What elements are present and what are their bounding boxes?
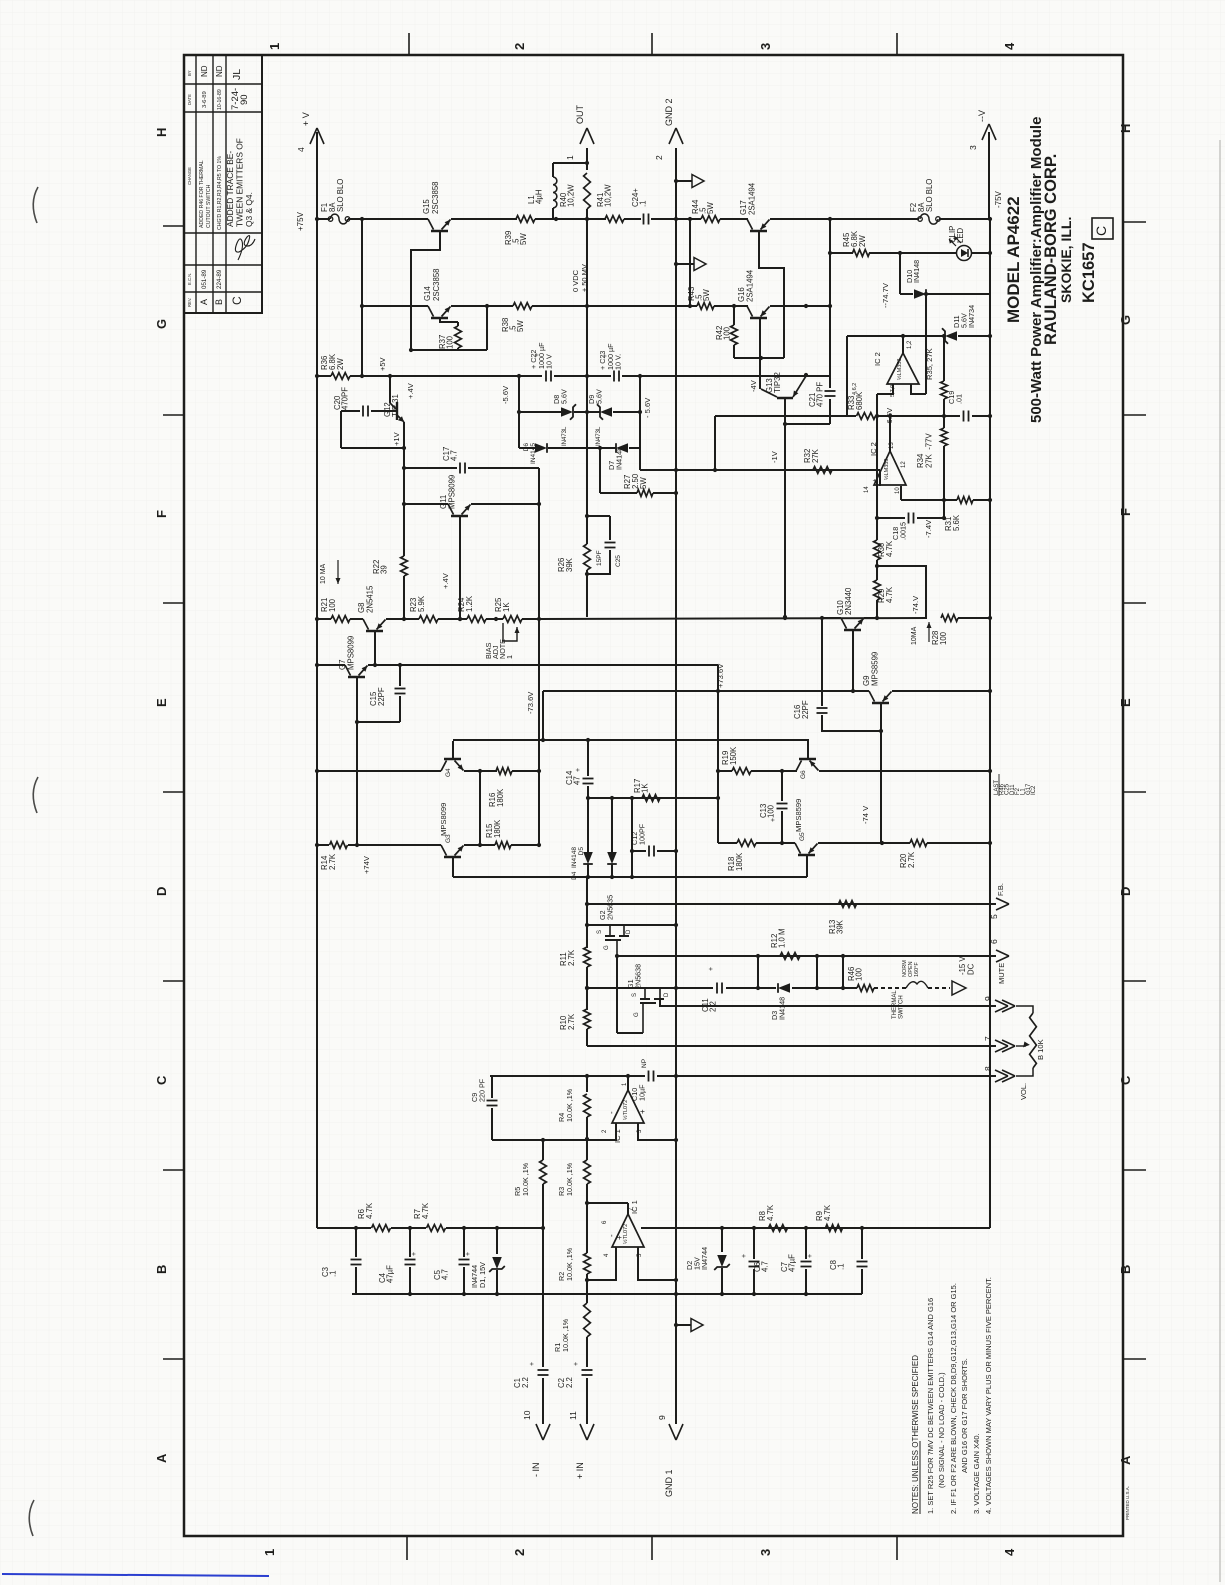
junction Q10 base row691	[851, 689, 855, 693]
wire R27 column	[599, 448, 601, 493]
zone tick top 2	[651, 33, 653, 55]
label R17 value	[633, 779, 650, 793]
wire row 424	[785, 423, 830, 425]
wire C6 lower	[753, 1269, 755, 1294]
label R4 value	[557, 1088, 574, 1122]
wire IC1b inv input	[587, 1247, 616, 1280]
label C7 value	[780, 1254, 797, 1272]
connector pin11 +IN	[568, 1411, 594, 1440]
transistor G13 TIP32	[761, 376, 806, 398]
wire Q15 base lead	[411, 232, 440, 350]
label C13 value	[759, 804, 776, 818]
svg-text:D6: D6	[523, 443, 530, 452]
label R8 value	[758, 1204, 775, 1221]
wire col877 mid	[876, 560, 878, 580]
svg-text:+ IN: + IN	[575, 1462, 585, 1479]
junction row1294 C5	[462, 1292, 466, 1296]
capacitor C2	[582, 1370, 593, 1375]
wire row448 right	[629, 447, 640, 449]
zone tick left 7	[163, 1358, 184, 1360]
svg-text:IN4148: IN4148	[777, 997, 786, 1020]
capacitor C25	[605, 543, 616, 548]
resistor R41	[605, 216, 624, 223]
junction row1294 D2	[720, 1292, 724, 1296]
LAST underline	[998, 774, 1000, 796]
transistor G10 2N3440	[841, 618, 864, 630]
junction Q9 base C16 row	[879, 729, 883, 733]
label R39 value	[504, 231, 528, 245]
wire col543 to C1	[542, 1228, 544, 1367]
svg-text:D: D	[664, 992, 670, 997]
junction col587 row988b	[585, 986, 589, 990]
transistor G9 MPS8599	[869, 691, 892, 703]
wire row1203	[587, 1202, 628, 1204]
junction rail617 x822	[820, 616, 824, 620]
wire Q14 emitter foot	[486, 306, 488, 350]
capacitor C13	[777, 804, 788, 809]
label MPS8099 shared Q3 Q4	[439, 803, 448, 836]
wire col926 clamp	[925, 294, 927, 394]
wire C9 column	[491, 1076, 493, 1098]
svg-text:100: 100	[446, 335, 455, 349]
wire dashed to thermal switch	[874, 987, 906, 989]
transistor G12 TIP31	[390, 402, 404, 422]
svg-text:15PF: 15PF	[596, 550, 603, 566]
svg-text:5W: 5W	[702, 289, 711, 301]
svg-text:10,2W: 10,2W	[604, 184, 613, 207]
svg-text:4.7K: 4.7K	[365, 1202, 374, 1219]
resistor R30	[874, 540, 881, 560]
label D6 value	[523, 443, 537, 464]
label G1 part	[626, 964, 642, 989]
capacitor C21	[825, 391, 836, 396]
wire C5 lower	[463, 1267, 465, 1294]
wire row771 left section	[317, 770, 441, 772]
wire rail619 from bus	[317, 618, 331, 620]
wire R3 lead	[586, 1139, 588, 1160]
wire C7 column	[805, 1228, 807, 1259]
wire C13 top lead	[781, 771, 783, 801]
label -15V DC	[958, 956, 975, 975]
svg-text:VOL.: VOL.	[1019, 1083, 1028, 1100]
svg-text:+: +	[770, 818, 777, 822]
svg-text:4.7: 4.7	[450, 450, 459, 461]
svg-text:5.9K: 5.9K	[417, 595, 426, 612]
junction rail306 C21 top	[804, 304, 808, 308]
wire C25 row top	[587, 515, 610, 517]
-15V DC driver triangle	[952, 981, 966, 995]
svg-text:S: S	[597, 930, 603, 934]
junction row448 R27col	[598, 446, 602, 450]
svg-text:-: -	[607, 1111, 616, 1114]
wire stub to flag1	[676, 180, 692, 182]
wire C20 left column	[340, 411, 342, 448]
svg-text:90: 90	[239, 94, 250, 105]
svg-text:MPS8099: MPS8099	[346, 636, 355, 670]
resistor R27	[637, 490, 653, 497]
wire C19 to bus	[972, 415, 990, 417]
connector pin6 MUTE	[989, 939, 1009, 962]
wire C20 row	[341, 410, 360, 412]
svg-text:+.4V: +.4V	[406, 382, 415, 399]
wire Q5 emitter right	[818, 842, 910, 844]
junction row956 x843	[841, 954, 845, 958]
svg-text:2: 2	[512, 1549, 527, 1556]
svg-text:10.0K ,1%: 10.0K ,1%	[565, 1247, 574, 1281]
svg-text:22PF: 22PF	[377, 687, 386, 706]
junction flag1	[674, 179, 678, 183]
label R6 value	[357, 1202, 374, 1219]
blue pen line bottom-left margin	[2, 1574, 269, 1576]
wire +75V rail to fuse F1	[317, 218, 330, 220]
junction flag2	[674, 262, 678, 266]
label R33 value	[847, 391, 864, 410]
wire C18 right	[917, 517, 944, 519]
wire row336	[847, 335, 944, 337]
wire R44/R43 left link	[689, 219, 691, 306]
svg-text:10 V: 10 V	[545, 354, 554, 369]
zone tick right 5	[1123, 980, 1146, 982]
svg-text:D: D	[1118, 887, 1133, 896]
wire IC2b out col	[889, 416, 891, 451]
junction D10 plus-input	[924, 292, 928, 296]
junction row1228 D2	[720, 1226, 724, 1230]
transistor G3 MPS8099	[441, 845, 464, 857]
wire right -75V bus vertical	[989, 219, 991, 1228]
wire Q1 drain to row1006	[660, 999, 996, 1006]
wire C24 to R44	[651, 218, 701, 220]
svg-text:3. VOLTAGE GAIN X40.: 3. VOLTAGE GAIN X40.	[972, 1433, 981, 1514]
label C14 value	[565, 770, 582, 785]
label R1 value	[553, 1318, 570, 1352]
label R34 value	[916, 433, 933, 468]
svg-text:10.0K ,1%: 10.0K ,1%	[565, 1088, 574, 1122]
svg-text:14: 14	[864, 486, 870, 493]
svg-text:REV.: REV.	[187, 298, 192, 307]
svg-text:C: C	[1118, 1075, 1133, 1085]
wire row468 left	[404, 467, 457, 469]
svg-text:4: 4	[1002, 42, 1017, 50]
svg-text:TWEEN EMITTERS OF: TWEEN EMITTERS OF	[235, 138, 245, 227]
capacitor C1	[538, 1370, 549, 1375]
wire IC2b noninv input	[879, 470, 881, 486]
label THERMAL SWITCH	[892, 990, 905, 1019]
wire col847	[846, 336, 848, 416]
svg-text:150K: 150K	[729, 746, 738, 765]
svg-text:.0015: .0015	[898, 522, 907, 540]
svg-text:A: A	[199, 299, 209, 305]
wire F1 node down to rail306	[361, 219, 363, 376]
svg-text:IN4148: IN4148	[614, 447, 623, 470]
svg-text:4.7K: 4.7K	[823, 1204, 832, 1221]
wire D3 to R46 tap	[792, 987, 843, 989]
wire row1046 to pin7	[587, 1045, 996, 1047]
fuse F1	[331, 214, 348, 224]
svg-text:F: F	[1118, 508, 1133, 516]
zone tick bottom 1	[406, 1536, 408, 1560]
junction GND2 row1139	[674, 1138, 678, 1142]
junction col944 row518	[942, 516, 946, 520]
wire corner row1046	[586, 1045, 588, 1047]
junction row877 C12col	[630, 875, 634, 879]
svg-text:--74.7V: --74.7V	[881, 282, 890, 308]
wire R16 right	[512, 770, 539, 772]
wire C1 to -IN	[542, 1378, 544, 1424]
zone tick right 7	[1123, 1358, 1146, 1360]
wire C13 bottom lead	[781, 811, 783, 843]
junction col543 row1228	[541, 1226, 545, 1230]
wire C25 lower	[587, 550, 610, 574]
op-amp IC1 upper half	[612, 1090, 644, 1123]
capacitor C4	[405, 1260, 416, 1265]
junction Q13 col rail617	[783, 615, 787, 619]
notes heading underline	[919, 1441, 921, 1514]
junction col944 row500	[942, 498, 946, 502]
wire R37 row left	[411, 349, 458, 351]
wire Q10 base column	[852, 630, 854, 691]
wire Q11 emitter right	[471, 503, 539, 505]
svg-text:+: +	[741, 1254, 748, 1258]
wire row988	[587, 987, 713, 989]
label CLIP LED	[948, 226, 965, 243]
svg-text:39: 39	[380, 565, 389, 574]
wire row1228 feedback	[641, 1227, 990, 1229]
svg-text:5,7,9: 5,7,9	[890, 385, 896, 397]
wire GND2 flag lower stub	[676, 1324, 691, 1326]
label G9 part	[862, 652, 879, 686]
svg-text:DATE: DATE	[187, 94, 192, 105]
label R18 value	[727, 852, 744, 871]
wire IC1a output	[627, 1076, 629, 1090]
junction row468 left	[402, 466, 406, 470]
wire D2 lower	[721, 1268, 723, 1294]
svg-text:4.7K: 4.7K	[421, 1202, 430, 1219]
wire bias row 358	[734, 357, 784, 359]
label R11 value	[559, 949, 576, 966]
label L1 4uH	[527, 190, 544, 204]
wire row518 C18	[877, 517, 905, 519]
resistor R23	[419, 616, 438, 623]
label R3 value	[557, 1162, 574, 1196]
label R16 value	[488, 788, 505, 807]
diode D5	[607, 852, 617, 864]
svg-text:G14: G14	[423, 286, 432, 301]
wire R37 top lead	[457, 322, 459, 326]
wire R39 to R41	[535, 218, 606, 220]
wire stub to flag2	[676, 263, 694, 265]
resistor R19	[732, 768, 751, 775]
svg-text:4µH: 4µH	[535, 190, 544, 204]
svg-text:+: +	[708, 967, 715, 971]
wire +1V row	[341, 447, 404, 449]
label R32 value	[803, 448, 820, 463]
wire C8 lower	[861, 1269, 863, 1294]
svg-text:BY: BY	[187, 70, 192, 76]
resistor R37	[455, 326, 462, 348]
svg-text:9: 9	[983, 996, 993, 1001]
wire col587 R11-R10	[586, 967, 588, 1010]
zone tick right 4	[1123, 791, 1146, 793]
svg-text:-74 V: -74 V	[861, 805, 870, 824]
capacitor C17	[460, 463, 465, 474]
junction row988 x817	[815, 986, 819, 990]
junction row798 C12	[630, 796, 634, 800]
svg-text:5W: 5W	[519, 233, 528, 245]
connector pin1 OUT	[565, 128, 594, 160]
junction GND2 R27	[674, 491, 678, 495]
LED CLIP indicator	[949, 236, 972, 261]
binder hole mark middle	[33, 777, 38, 813]
label R9 value	[815, 1204, 832, 1221]
junction col519 row412	[517, 410, 521, 414]
svg-text:+.4V: +.4V	[441, 572, 450, 589]
capacitor C11	[717, 983, 722, 994]
wire OUT column below R26	[586, 570, 588, 617]
label R22 value	[372, 560, 389, 574]
wire col539 long	[538, 468, 540, 845]
junction col357 row722	[355, 720, 359, 724]
svg-text:+74V: +74V	[362, 855, 371, 874]
svg-text:C25: C25	[615, 555, 622, 567]
capacitor C14	[583, 779, 594, 784]
junction row1228 C6	[752, 1226, 756, 1230]
svg-text:4.7K: 4.7K	[885, 540, 894, 557]
svg-text:IN4734: IN4734	[967, 305, 976, 328]
svg-text:-7.4V: -7.4V	[924, 519, 933, 538]
svg-text:10.0K ,1%: 10.0K ,1%	[565, 1162, 574, 1196]
capacitor C16	[817, 708, 828, 713]
svg-text:39K: 39K	[836, 919, 845, 934]
wire C15 bottom row	[357, 721, 400, 723]
svg-text:-73.6V: -73.6V	[526, 691, 535, 714]
wire row904 FB	[587, 903, 996, 905]
junction col587 row1280	[585, 1278, 589, 1282]
wire col877 to rail	[876, 600, 878, 618]
svg-text:7: 7	[983, 1036, 993, 1041]
svg-text:10.0K ,1%: 10.0K ,1%	[521, 1162, 530, 1196]
junction row798 D4	[586, 796, 590, 800]
svg-text:5W: 5W	[706, 202, 715, 214]
svg-text:2W: 2W	[858, 235, 867, 247]
svg-text:22PF: 22PF	[801, 700, 810, 719]
zone tick right 3	[1123, 602, 1146, 604]
junction GND2 row925	[674, 923, 678, 927]
connector pin3 -V	[968, 124, 996, 150]
wire R38 to PNP side	[532, 305, 697, 307]
svg-text:ND: ND	[200, 65, 209, 77]
svg-text:10 V.: 10 V.	[614, 354, 623, 370]
svg-text:½TL072: ½TL072	[622, 1100, 629, 1120]
label C15 value	[369, 687, 386, 706]
connector pin7 VOL wiper	[983, 1036, 1015, 1052]
svg-text:D1, 15V: D1, 15V	[478, 1262, 487, 1288]
label D9 value	[587, 389, 603, 404]
junction row845 col357	[355, 843, 359, 847]
label C23 value	[598, 343, 623, 370]
junction col480 row845	[478, 843, 482, 847]
svg-text:10MA: 10MA	[911, 626, 918, 645]
label 10MA with arrow	[320, 560, 341, 584]
svg-text:-: -	[607, 1234, 616, 1237]
svg-text:G: G	[1118, 315, 1133, 325]
wire bus corner into row1228	[989, 1076, 991, 1228]
fuse F2	[920, 214, 938, 224]
zener D9 5.6V	[600, 407, 612, 417]
label C16 value	[793, 700, 810, 719]
wire OUT column R26 leads	[586, 516, 588, 544]
wire C14 to row798	[587, 786, 589, 798]
wire x830 column lower	[829, 399, 831, 424]
svg-text:1.0 M: 1.0 M	[778, 929, 787, 949]
junction row504 right	[537, 502, 541, 506]
resistor R36	[331, 373, 350, 380]
junction row843 Q9 base col	[880, 841, 884, 845]
diode D10	[914, 289, 926, 299]
label R38 value	[501, 318, 525, 332]
capacitor C15	[395, 689, 406, 694]
resistor R15	[495, 842, 511, 849]
svg-text:.1: .1	[329, 1270, 338, 1277]
label G4	[445, 768, 452, 777]
svg-text:+: +	[529, 1362, 536, 1366]
wire row1228 right	[446, 1227, 543, 1229]
wire row740 bootstrap	[453, 739, 809, 741]
junction row1076 GND2	[674, 1074, 678, 1078]
junction bus row691	[988, 689, 992, 693]
label R27 value	[623, 473, 648, 489]
wire col543 R5 chain	[542, 1140, 544, 1160]
svg-text:A: A	[154, 1453, 169, 1463]
wire row1294 ground return	[352, 1293, 862, 1295]
wire rail376 C23 right	[622, 375, 830, 377]
op-amp IC2 lower half	[874, 451, 906, 485]
wire R4 to row1139	[586, 1117, 588, 1139]
svg-text:27K -77V: 27K -77V	[924, 433, 933, 468]
wire R28 to bus	[958, 617, 990, 619]
svg-text:+5V: +5V	[378, 357, 387, 371]
svg-text:.1: .1	[639, 200, 648, 207]
label C24 value	[631, 188, 648, 207]
svg-text:F: F	[154, 510, 169, 518]
capacitor C10	[649, 1071, 654, 1082]
junction row1294 GND2	[674, 1292, 678, 1296]
wire R23 to R24	[438, 618, 467, 620]
label R45 value	[842, 230, 867, 247]
svg-text:F.B.: F.B.	[996, 883, 1005, 896]
label D1 value	[470, 1262, 487, 1288]
wire IC2a noninv input	[911, 384, 926, 394]
junction row1294 C7	[804, 1292, 808, 1296]
svg-text:160°F: 160°F	[914, 962, 920, 977]
label R14 value	[320, 853, 337, 870]
svg-text:1K: 1K	[641, 783, 650, 793]
rev C change	[225, 138, 254, 227]
zener D11 5.6V IN4734	[945, 331, 957, 341]
svg-text:B 10K: B 10K	[1036, 1039, 1045, 1060]
junction OUT row574	[585, 572, 589, 576]
svg-text:½LM353: ½LM353	[896, 359, 903, 380]
wire row691 to Q9	[718, 690, 869, 692]
wire row253 left	[830, 252, 853, 254]
wire row336 D11 leads	[944, 335, 945, 337]
junction col944 row416	[942, 414, 946, 418]
wire IC2b inv input	[900, 486, 902, 500]
wire C16 col from rail617	[821, 618, 823, 706]
label R46 value	[847, 967, 864, 981]
zone tick left 6	[163, 1169, 184, 1171]
svg-text:4: 4	[1002, 1548, 1017, 1556]
junction base row x411	[409, 348, 413, 352]
